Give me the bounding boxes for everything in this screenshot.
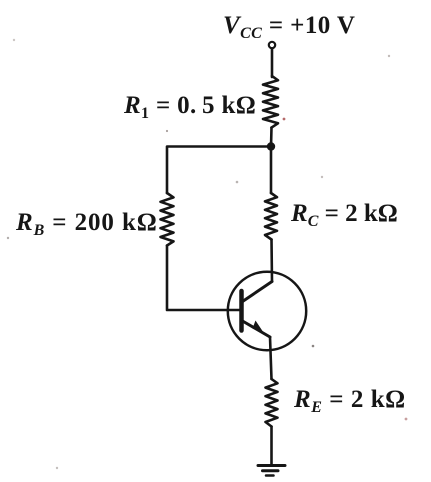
VCC supply terminal	[269, 42, 275, 48]
wire: RB to transistor base	[167, 246, 240, 311]
node A (junction dot)	[267, 142, 275, 150]
ground	[258, 466, 285, 476]
resistor RE	[266, 379, 278, 427]
wire: R1 to node A	[270, 128, 273, 147]
wire: node A to RB branch (left and down)	[167, 147, 271, 194]
wire: VCC terminal to R1	[271, 49, 274, 78]
transistor Q1 (NPN)	[228, 272, 306, 350]
label R1 = 0.5 kOhm	[124, 93, 256, 118]
resistor R1	[263, 76, 278, 128]
label RB = 200 kOhm	[16, 210, 158, 235]
resistor RC	[265, 193, 277, 240]
label VCC = +10 V	[223, 13, 355, 38]
wire: RE to ground	[270, 427, 273, 466]
wire: node A down to RC	[270, 147, 273, 194]
label RE = 2 kOhm	[294, 387, 406, 412]
wire: RC to collector	[270, 240, 273, 282]
resistor RB	[161, 193, 174, 246]
label RC = 2 kOhm	[291, 201, 398, 226]
wire: emitter to RE	[270, 337, 272, 379]
